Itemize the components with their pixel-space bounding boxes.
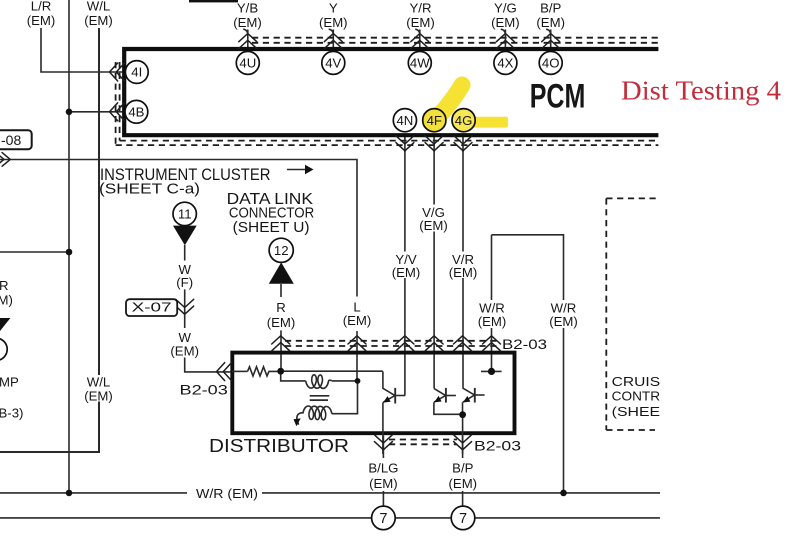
svg-text:4F: 4F [427,113,442,128]
svg-text:B-3): B-3) [0,406,23,421]
svg-text:4O: 4O [542,56,560,71]
svg-text:11: 11 [178,207,192,222]
svg-text:7: 7 [459,511,467,527]
svg-text:B2-03: B2-03 [502,336,547,352]
svg-text:(EM): (EM) [84,389,113,404]
svg-text:(F): (F) [176,275,193,290]
svg-text:M): M) [0,293,13,308]
svg-text:(EM): (EM) [449,476,478,491]
svg-text:X-07: X-07 [132,299,172,314]
svg-text:B/P: B/P [452,460,473,475]
svg-text:MP: MP [0,374,19,389]
svg-text:(EM): (EM) [343,313,372,328]
svg-text:(EM): (EM) [84,13,113,28]
svg-text:(EM): (EM) [491,15,520,30]
svg-text:(EM): (EM) [27,13,56,28]
svg-text:4G: 4G [455,113,473,128]
svg-text:(EM): (EM) [369,476,398,491]
svg-text:(EM): (EM) [392,265,421,280]
svg-text:(EM): (EM) [478,314,507,329]
svg-text:4X: 4X [497,56,513,71]
svg-text:B/LG: B/LG [368,460,398,475]
svg-text:-08: -08 [1,132,21,148]
svg-text:W: W [178,330,191,345]
svg-text:Y: Y [329,1,338,16]
svg-text:7: 7 [379,511,387,527]
svg-text:Dist Testing 4: Dist Testing 4 [621,75,782,105]
svg-text:4U: 4U [239,56,256,71]
svg-text:(SHEET C-a): (SHEET C-a) [99,181,200,198]
svg-text:CONTR: CONTR [612,389,660,404]
svg-text:(EM): (EM) [549,314,578,329]
svg-text:B2-03: B2-03 [474,438,521,454]
svg-text:PCM: PCM [530,77,586,115]
svg-text:(EM): (EM) [267,315,296,330]
svg-text:DISTRIBUTOR: DISTRIBUTOR [209,435,349,456]
svg-text:Y/G: Y/G [494,1,517,16]
svg-text:L/R: L/R [31,0,52,14]
svg-text:W/L: W/L [87,375,110,390]
svg-text:Y/R: Y/R [410,1,432,16]
svg-text:(SHEET U): (SHEET U) [233,220,310,236]
svg-text:(EM): (EM) [536,15,565,30]
svg-text:(EM): (EM) [449,265,478,280]
svg-text:B/P: B/P [540,1,561,16]
svg-text:R: R [276,300,286,315]
svg-text:4V: 4V [325,56,341,71]
svg-text:4N: 4N [396,113,413,128]
svg-text:(EM): (EM) [319,15,348,30]
svg-text:R: R [0,278,9,293]
svg-text:12: 12 [274,243,289,258]
svg-text:CRUIS: CRUIS [612,374,661,389]
svg-text:W/R (EM): W/R (EM) [196,486,258,501]
svg-text:(EM): (EM) [406,15,435,30]
svg-text:(SHEE: (SHEE [612,404,661,419]
svg-text:Y/B: Y/B [237,1,258,16]
svg-text:4I: 4I [131,65,142,80]
svg-text:(EM): (EM) [170,344,199,359]
svg-text:W/L: W/L [87,0,110,14]
svg-text:(EM): (EM) [233,15,262,30]
svg-text:(EM): (EM) [419,218,448,233]
svg-text:4W: 4W [410,56,430,71]
svg-text:B2-03: B2-03 [180,382,229,398]
svg-text:4B: 4B [128,104,144,119]
